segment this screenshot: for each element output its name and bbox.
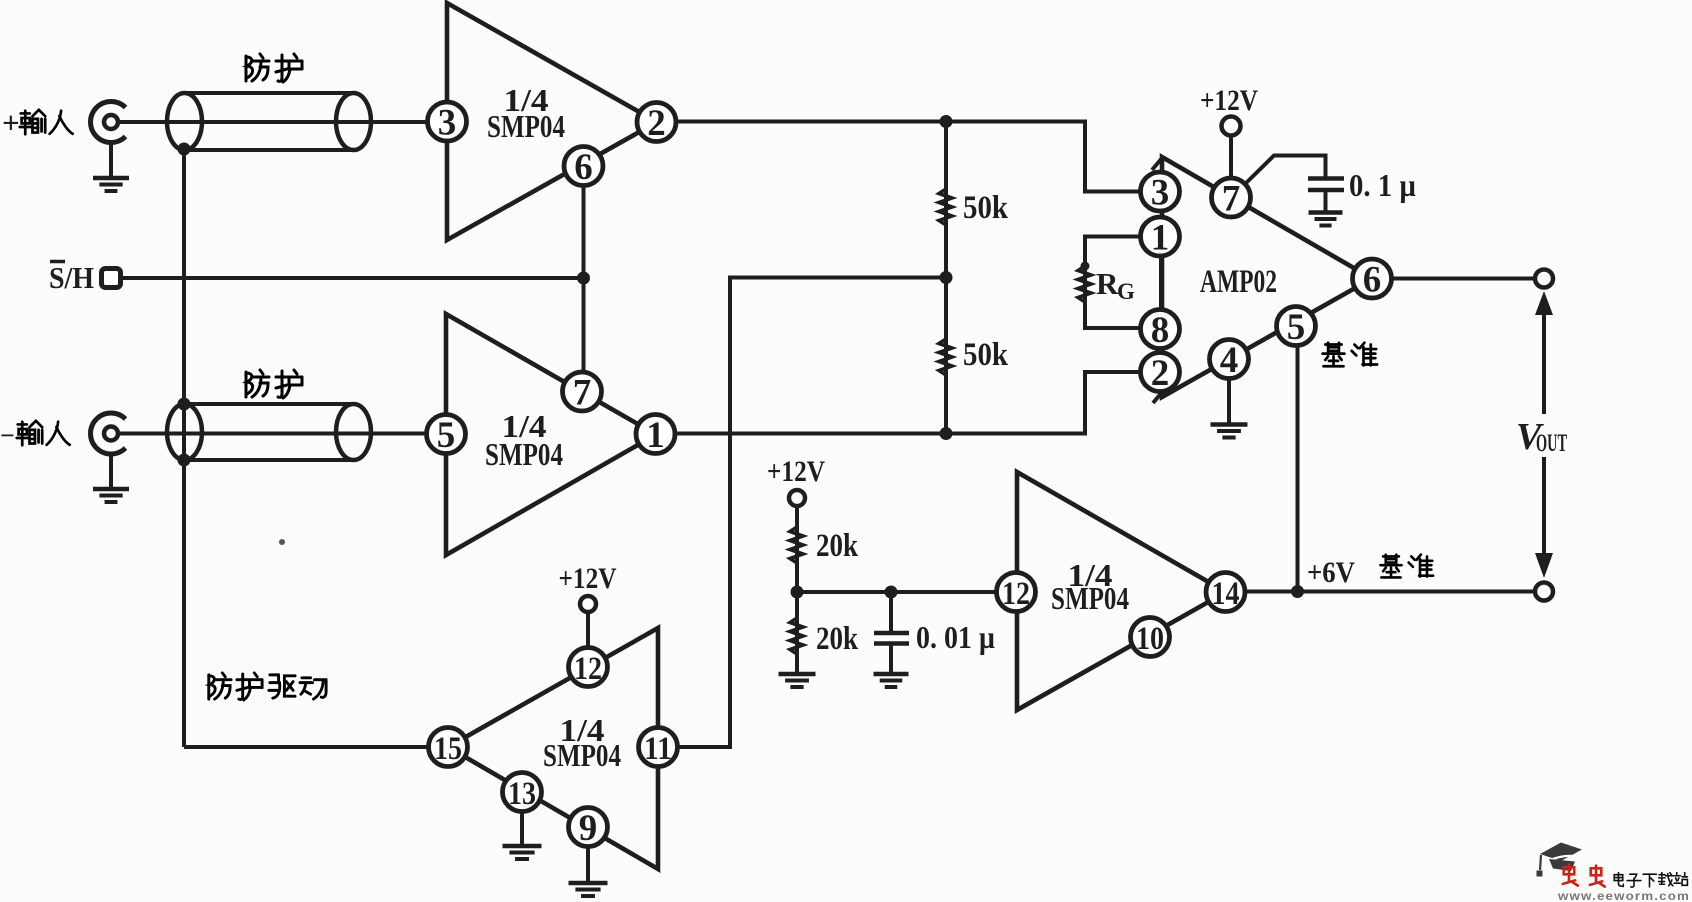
- svg-text:11: 11: [644, 731, 672, 767]
- svg-text:SMP04: SMP04: [487, 108, 565, 144]
- svg-text:8: 8: [1151, 310, 1170, 351]
- svg-text:50k: 50k: [963, 190, 1009, 226]
- svg-text:7: 7: [1222, 179, 1241, 220]
- svg-text:+12V: +12V: [559, 562, 617, 595]
- svg-text:+6V: +6V: [1307, 556, 1355, 589]
- svg-text:6: 6: [1363, 260, 1382, 301]
- svg-text:+: +: [2, 105, 20, 140]
- svg-text:14: 14: [1212, 576, 1240, 612]
- svg-text:S/H: S/H: [49, 260, 94, 295]
- svg-text:20k: 20k: [816, 528, 859, 564]
- svg-text:OUT: OUT: [1536, 430, 1567, 457]
- svg-text:3: 3: [438, 103, 457, 144]
- svg-text:3: 3: [1151, 173, 1170, 214]
- svg-text:10: 10: [1136, 621, 1164, 657]
- svg-text:www.eeworm.com: www.eeworm.com: [1557, 891, 1690, 902]
- svg-text:SMP04: SMP04: [485, 436, 563, 472]
- svg-text:+12V: +12V: [767, 455, 825, 488]
- svg-text:2: 2: [647, 103, 666, 144]
- svg-text:5: 5: [437, 415, 456, 456]
- svg-text:R: R: [1096, 266, 1119, 301]
- svg-text:12: 12: [1002, 576, 1030, 612]
- svg-text:0. 01 µ: 0. 01 µ: [916, 619, 995, 655]
- svg-text:13: 13: [508, 776, 536, 812]
- svg-text:4: 4: [1220, 340, 1239, 381]
- svg-text:1: 1: [646, 415, 665, 456]
- svg-text:20k: 20k: [816, 621, 859, 657]
- svg-text:15: 15: [434, 731, 462, 767]
- svg-text:7: 7: [573, 373, 592, 414]
- svg-text:G: G: [1117, 279, 1135, 304]
- svg-text:2: 2: [1151, 353, 1170, 394]
- svg-text:SMP04: SMP04: [543, 737, 621, 773]
- svg-text:0. 1 µ: 0. 1 µ: [1349, 167, 1416, 203]
- svg-text:1: 1: [1151, 218, 1170, 259]
- svg-text:50k: 50k: [963, 337, 1009, 373]
- svg-text:−: −: [0, 421, 15, 450]
- svg-text:AMP02: AMP02: [1200, 264, 1277, 300]
- svg-text:9: 9: [579, 808, 598, 849]
- svg-text:5: 5: [1287, 307, 1306, 348]
- svg-text:6: 6: [574, 147, 593, 188]
- svg-text:+12V: +12V: [1200, 84, 1258, 117]
- svg-text:SMP04: SMP04: [1051, 580, 1129, 616]
- svg-text:12: 12: [574, 651, 602, 687]
